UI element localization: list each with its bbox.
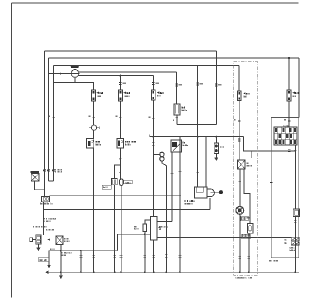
ground bus left arrow: [45, 270, 48, 274]
wire ST signal y=195.7: [49, 195, 181, 197]
wire fuse IGN feed from bus2 dot: [288, 58, 290, 90]
wire small relay feed from mid line: [215, 137, 217, 144]
junction dot y=136.6 x=206: [205, 136, 207, 138]
junction tick y=150.8: [250, 151, 252, 158]
label under buzzer boxes: [269, 247, 295, 261]
label noise filter: [124, 180, 133, 184]
ticks below right connector: [294, 221, 297, 223]
wire FL lower output y=75.6: [79, 75, 154, 77]
label distributor boxed: [242, 234, 250, 238]
wire distributor to ground bus: [248, 233, 250, 272]
value label fuse AM1: [243, 92, 246, 95]
wire starter terminal: [211, 191, 219, 193]
tick on block left edge: [270, 182, 273, 184]
dashed component enclosure: [234, 62, 258, 275]
wire fuse IGN output to junction block: [288, 101, 290, 127]
ticks on terminal wire: [165, 255, 168, 257]
wire relay right pin jog to distributor: [244, 169, 250, 224]
ticks bus3 branch x=197.6: [196, 172, 199, 174]
wire junction connector to ground bus: [114, 185, 116, 272]
fuse AM1: [237, 91, 241, 101]
wire long output y=237.5: [157, 237, 291, 239]
pin labels ignition switch: [55, 169, 62, 173]
junction dot AM2 at y=136.6: [152, 136, 154, 138]
fuse F1: [92, 90, 96, 101]
wire feeder y=82.6 from bus3 drop to fuse1: [54, 83, 94, 90]
wire bus3 horizontal y=65.5: [54, 65, 239, 67]
ST relay box: [171, 140, 182, 152]
wire ignition connector down: [43, 202, 45, 235]
wire return y=209.6: [44, 209, 210, 211]
wire terminal circles to ground bus: [162, 161, 166, 272]
label ST relay: [182, 142, 185, 144]
wire FL bottom stub: [74, 77, 76, 82]
fuse AM2: [151, 90, 155, 100]
wire fuse1 to horn: [93, 101, 95, 125]
wire bus1 vertical drop left x=44.6: [44, 51, 46, 196]
label starter relay: [245, 162, 248, 164]
wire bus3 vertical drop left x=53.6: [53, 66, 55, 182]
wire bus1 horizontal y=51: [45, 50, 217, 52]
label ignition switch: [39, 203, 42, 205]
wire bus1 riser to relay bottom: [176, 115, 178, 124]
junction box relay JB: [36, 235, 41, 244]
wire key cylinder right side loop: [157, 220, 172, 222]
label C fusible link callout: [43, 218, 45, 221]
ignition switch contact block hatch bar: [30, 171, 39, 173]
wire mid distribution y=136.6: [150, 136, 244, 138]
wire drop x=81 from A-04 wire: [80, 251, 82, 273]
relay A box: [87, 139, 94, 148]
wire bus2 tail down right edge: [298, 58, 300, 118]
key-in buzzer boxes: [291, 237, 299, 240]
wire stub ground left: [48, 251, 50, 265]
wire resistor to ground bus: [144, 232, 146, 273]
junction connector box: [111, 178, 117, 184]
main relay box: [56, 236, 63, 244]
tick on wire x=180: [179, 170, 182, 172]
wire bus1 lower horizontal y=124.5: [177, 124, 217, 126]
ignition coil circle: [236, 207, 244, 215]
ground symbol below JB relay: [37, 244, 39, 248]
junction dot coil feed: [144, 233, 146, 235]
wire connector to ground bus: [294, 217, 296, 273]
terminal stud dot: [219, 190, 223, 194]
wire FL to bus2 tap: [49, 73, 72, 75]
ignition switch body: [31, 174, 39, 181]
ticks near block feed: [288, 149, 291, 151]
label main relay: [63, 238, 66, 240]
wire fuse2 drop x=120.4: [119, 76, 121, 90]
wire FL upper output y=72.2: [79, 71, 177, 73]
label above pin block: [282, 125, 285, 126]
junction dot bus2 at x=289: [288, 57, 290, 59]
wire inside block from fuse IGN: [288, 101, 290, 127]
wire jog to junction connector: [115, 165, 121, 178]
junction dot terminal wire at bus: [165, 271, 167, 273]
wire relay A to ground bus: [93, 148, 95, 272]
label left of buzzer boxes: [285, 239, 287, 244]
tick AM1 wire y=139: [238, 139, 241, 141]
ground symbol below diode: [215, 154, 217, 158]
label A-04: [49, 248, 52, 250]
wire starter feed2 x=206: [205, 137, 207, 188]
wire resistor top to key cylinder box: [145, 220, 151, 224]
stub below bus with arrow: [60, 273, 62, 276]
wire relay left pin to coil: [239, 169, 241, 206]
wire key cylinder feed from AM2: [152, 213, 154, 216]
border frame left edge: [11, 3, 13, 298]
junction dot x=120.4 y=158.8: [120, 158, 122, 160]
wire A-04 feed y=250.7: [49, 250, 117, 252]
label relay B: [124, 141, 127, 143]
junction dots on ground bus: [60, 271, 296, 273]
fusible link hatch bar: [71, 67, 79, 69]
wire AM1 chain fuse to relay: [238, 101, 240, 161]
wire stub to key terminals: [153, 154, 159, 156]
wire feed line y=150.8 to right block: [243, 137, 295, 151]
ignition key cylinder box: [151, 216, 157, 240]
wire IG2 drop corner x=176.6: [176, 72, 178, 104]
label fusible link 2: [62, 252, 72, 256]
wire color labels tiny: [48, 115, 286, 120]
label resistor: [134, 226, 138, 230]
label key cylinder: [158, 226, 160, 228]
IG2 relay box: [174, 104, 180, 115]
wire key cylinder bottom to bus: [153, 240, 155, 272]
starter motor body: [195, 187, 207, 198]
junction dot main relay output: [60, 250, 62, 252]
tick on FL feed wire: [59, 72, 61, 74]
distributor box: [247, 224, 253, 234]
connector ticks column y~84: [119, 83, 218, 87]
wire starter bottom to return: [209, 198, 211, 209]
horn symbol circle: [91, 125, 96, 130]
fuse F2: [119, 90, 123, 101]
tick below IG2 relay: [176, 116, 179, 118]
wire relay B down: [119, 148, 121, 180]
wire bus1 corner down x=216.3: [215, 51, 217, 125]
wire color microlabels at connector ticks: [123, 83, 222, 86]
fusible link diameter wire: [71, 73, 79, 75]
label starter: [184, 200, 187, 202]
ignition switch connector: [41, 196, 49, 201]
terminal circle lower: [160, 157, 164, 161]
wire JB left arm: [33, 238, 36, 240]
wire fuse2 to relay B: [119, 101, 121, 139]
horn left arm: [89, 127, 92, 129]
starter inner contact box: [196, 187, 203, 192]
starter solenoid bump: [207, 189, 214, 197]
wire ignition switch tail: [35, 181, 45, 190]
junction dot y=136.6 x=180: [179, 136, 181, 138]
label EFI boxed: [39, 257, 49, 261]
pin number label IG2: [172, 119, 175, 120]
junction dot x=120.4 y=172.5: [120, 172, 122, 174]
wire AM1 drop corner x=238.8: [238, 66, 240, 92]
wire main relay to bus: [60, 244, 62, 272]
label IG2 relay: [180, 107, 183, 109]
label ignition coil boxed: [241, 216, 249, 220]
value label fuse F2: [124, 92, 127, 95]
starter relay box: [237, 160, 245, 169]
wire bus3 branch drop x=197.6: [197, 66, 199, 188]
wire horn to relay A: [93, 130, 95, 138]
instrument panel junction block box: [271, 118, 298, 258]
border frame top edge: [12, 2, 299, 4]
junction dot y=136.6 x=216.3: [215, 136, 217, 138]
value label fuse AM2: [157, 91, 160, 94]
connector box right edge: [293, 209, 299, 217]
wire ST relay left pin down: [171, 152, 173, 221]
wire AM2 drop corner x=153.4: [152, 76, 154, 90]
value label fuse IGN: [292, 92, 295, 95]
junction dot block feed: [295, 150, 297, 152]
junction dot fuse2 feed: [119, 75, 121, 77]
ground bus wire y=273: [48, 271, 299, 273]
connector ticks AM2 wire y~143: [152, 143, 155, 145]
wire bus2 vertical drop left x=48.6: [48, 58, 50, 181]
noise filter capacitor: [120, 179, 123, 185]
terminal circle upper: [160, 152, 164, 156]
horn right arm: [97, 126, 100, 129]
value label fuse F1: [97, 92, 100, 95]
wire jog up to coil line: [117, 234, 150, 251]
pin label ticks y~118: [52, 118, 290, 121]
junction dot y=136.6 x=197.6: [197, 136, 199, 138]
tick on coil wire: [239, 181, 242, 183]
pin fork x=48.6: [48, 169, 50, 171]
label J/B no2: [33, 226, 54, 231]
label junction connector: [102, 185, 111, 189]
connector tiny box left: [30, 238, 33, 242]
label under dashed enclosure: [234, 277, 237, 278]
fuse IGN: [287, 90, 291, 101]
connector pin block: [274, 127, 297, 145]
wire coil bottom: [239, 215, 241, 273]
wire AM2 fuse down x=153.3: [152, 100, 154, 216]
pin fork x=44.6: [44, 169, 46, 171]
relay B box: [117, 139, 124, 148]
pin fork x=53.6: [53, 169, 55, 171]
connector arrow mark: [47, 239, 50, 241]
wire joiner pins 2-3: [49, 180, 54, 182]
wire bus2 horizontal y=58: [49, 57, 299, 59]
label relay A: [94, 141, 97, 143]
wire noise filter to ground bus: [120, 185, 122, 272]
tick on wire x=172: [171, 172, 174, 174]
diode box: [214, 143, 218, 153]
wire ST relay right pin to ground bus: [179, 137, 181, 273]
resistor coil box: [143, 224, 147, 232]
wire block right output: [294, 145, 296, 209]
label dashes right of diode: [220, 146, 224, 148]
fusible link FL circle: [71, 70, 79, 78]
connector ticks row y~256: [80, 256, 251, 259]
